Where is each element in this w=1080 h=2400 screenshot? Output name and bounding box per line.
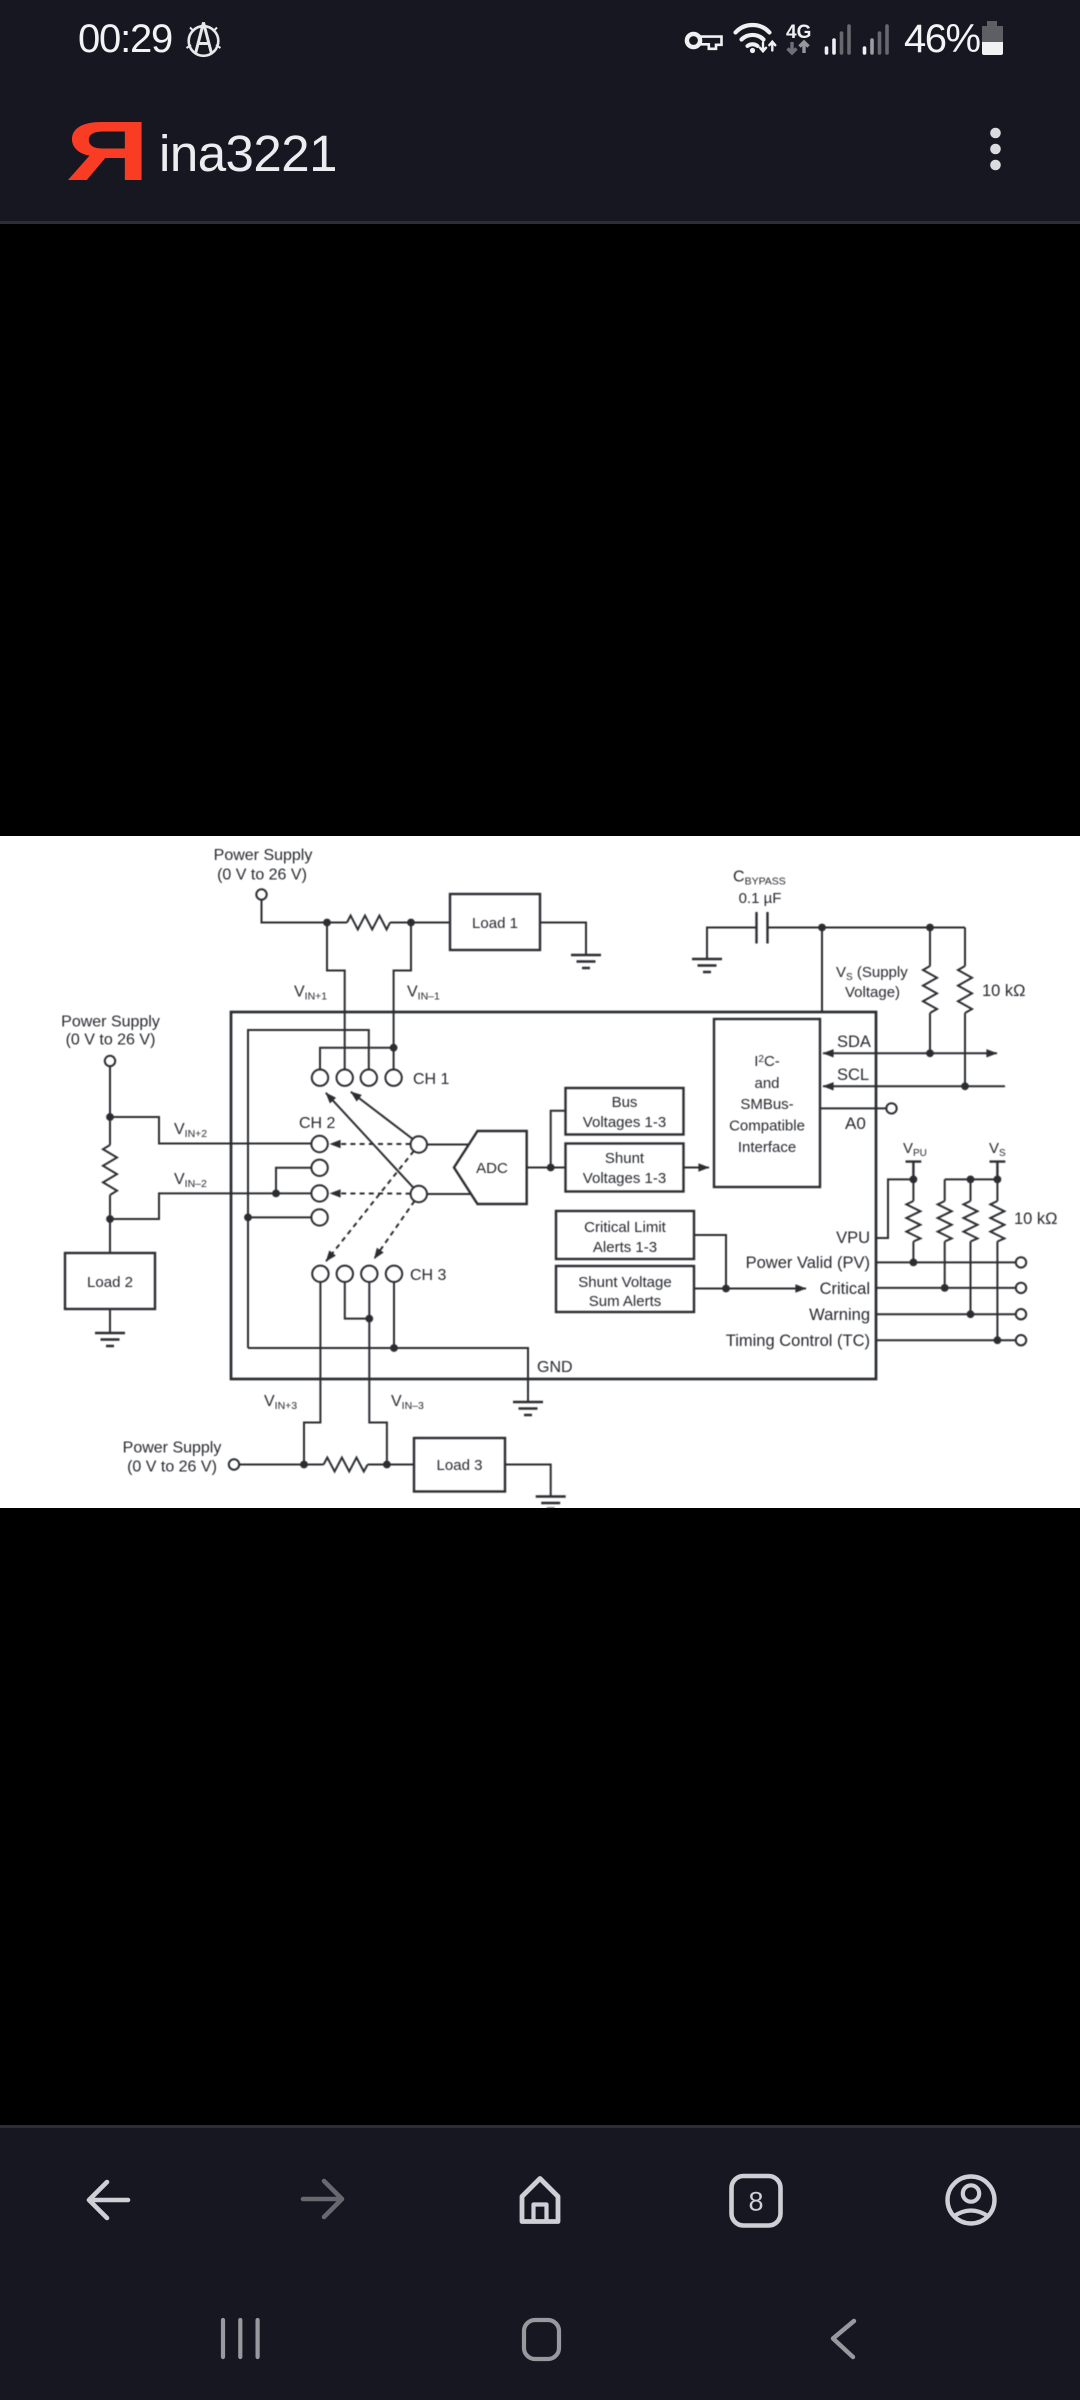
wire load2 to ground [109,1309,111,1333]
svg-text:CBYPASS: CBYPASS [733,869,786,888]
nav home [524,2320,559,2359]
wire inner loop bottom to GND [248,1348,528,1402]
node critical terminal [1016,1283,1026,1293]
svg-text:Timing Control (TC): Timing Control (TC) [726,1332,870,1350]
svg-text:VIN+3: VIN+3 [264,1393,297,1412]
svg-text:SCL: SCL [837,1066,869,1084]
wire mux dashed diagonal to CH3 pin3 [374,1201,414,1259]
wire mux solid diagonal to CH1 pin1 [326,1093,414,1188]
svg-text:SMBus-: SMBus- [740,1096,793,1113]
ground GND pin [513,1402,543,1415]
wire cap left to ground [707,928,757,960]
svg-text:ADC: ADC [476,1160,508,1177]
node junction VIN-1 [407,919,415,927]
node junction ch3 pins23 [365,1315,373,1323]
node junction SCL [961,1082,969,1090]
wire mux to ADC [427,1145,471,1195]
svg-text:VS: VS [989,1140,1006,1159]
node junction SDA pullup top [926,924,934,932]
svg-text:Shunt: Shunt [605,1150,645,1167]
svg-text:Voltages 1-3: Voltages 1-3 [583,1114,666,1131]
top status/app bar [0,0,1080,223]
svg-text:Voltage): Voltage) [845,984,900,1001]
resistor R7 TC pullup [996,1179,998,1340]
node supply2 terminal [105,1056,115,1066]
svg-text:CH 1: CH 1 [413,1071,450,1088]
svg-text:Voltages 1-3: Voltages 1-3 [583,1170,666,1187]
wire mux solid diagonal to CH1 pin2 [351,1092,413,1139]
node junction VIN+3 [300,1461,308,1469]
load 1 box [450,894,540,950]
wire CH2 pin4 link [248,1216,311,1218]
svg-text:Alerts 1-3: Alerts 1-3 [593,1239,657,1256]
wire VS pin drop [821,928,823,1014]
svg-text:VIN+2: VIN+2 [174,1121,207,1140]
svg-text:Load 3: Load 3 [437,1457,483,1474]
wire VS rail [945,1178,998,1180]
wire A0 pin [820,1107,886,1109]
node junction VIN-3 [383,1461,391,1469]
node critical junction [941,1284,949,1292]
tab counter [732,2176,781,2226]
wire load3 to ground [505,1465,551,1497]
node warning junction [967,1310,975,1318]
svg-text:(0 V to 26 V): (0 V to 26 V) [66,1032,156,1049]
node supply3 terminal [229,1459,239,1469]
svg-text:GND: GND [537,1359,573,1376]
wire supply3 line [239,1464,414,1466]
node junction VS rail end [994,1176,1002,1184]
back arrow [89,2182,128,2218]
svg-text:VIN–3: VIN–3 [391,1393,424,1412]
wire CH3 pin2 link [345,1282,370,1319]
wire mux dashed to CH2 pin1 [330,1143,411,1145]
wire mux dashed to CH2 pin3 [330,1192,411,1194]
wire CH2 pin2 link [276,1168,311,1194]
node junction VIN+2 [106,1113,114,1121]
svg-text:VIN–1: VIN–1 [407,984,440,1003]
capacitor C1 CBYPASS plates [757,912,768,944]
block bus voltages box [566,1088,684,1135]
node junction VIN-1 inner [390,1044,398,1052]
svg-text:(0 V to 26 V): (0 V to 26 V) [127,1459,217,1476]
node junction VS [818,924,826,932]
svg-text:10 kΩ: 10 kΩ [982,982,1026,1000]
resistor RS3 shunt channel3 [324,1458,368,1472]
node A0 terminal [886,1103,896,1113]
wire SCL bus [823,1085,1005,1087]
node PV junction [910,1259,918,1267]
wire mux dashed diagonal to CH3 pin1 [326,1151,414,1261]
node junction VIN+1 [323,919,331,927]
op-amp U2 I2C SMBus interface box [714,1019,820,1187]
node junction inner loop ch3 [390,1344,398,1352]
node junction ADC out [547,1164,555,1172]
forward arrow (dimmed) [303,2181,342,2217]
node junction SDA [926,1049,934,1057]
svg-text:VPU: VPU [903,1140,927,1159]
wire VIN+1 sense line [327,923,345,1070]
node CH2 pin circles [311,1136,327,1152]
white image area with circuit diagram [0,836,1080,1508]
svg-text:CH 2: CH 2 [299,1115,336,1132]
svg-text:10 kΩ: 10 kΩ [1014,1210,1058,1228]
svg-text:SDA: SDA [837,1033,871,1051]
node VS supply terminal [990,1162,1006,1180]
svg-text:Load 2: Load 2 [87,1274,133,1291]
overflow menu dots [990,128,1001,171]
resistor R5 critical pullup [944,1179,946,1288]
node junction inner loop ch2 [244,1214,252,1222]
node junction VS rail mid [967,1176,975,1184]
svg-text:I2C-: I2C- [754,1053,780,1070]
op-amp U3 ADC pentagon [454,1131,527,1204]
wire critical output [876,1287,1016,1289]
svg-text:VPU: VPU [836,1229,870,1247]
wire shunt voltages to interface arrow [684,1167,710,1169]
load 2 box [65,1253,155,1309]
svg-text:and: and [754,1075,779,1092]
svg-text:VIN–2: VIN–2 [174,1171,207,1190]
wire PV output [876,1261,1016,1263]
resistor R3 SCL pullup 10k [964,928,966,1087]
node warning terminal [1016,1309,1026,1319]
anarchy notification icon [187,23,221,56]
node TC junction [994,1336,1002,1344]
resistor R4 PV pullup [912,1179,914,1262]
wire CH3 pin4 link [393,1282,395,1348]
4G indicator [786,22,811,53]
bottom toolbar [0,2128,1080,2400]
profile icon [948,2177,995,2224]
block critical limit alerts box [556,1211,694,1259]
node CH3 pin circles [312,1266,328,1282]
svg-text:Shunt Voltage: Shunt Voltage [578,1274,671,1291]
wire inner loop top [248,1030,369,1348]
ground load3 [536,1497,566,1509]
resistor RS1 shunt channel1 [347,916,390,930]
wire CH3 pin1 to VIN+3 [304,1282,320,1465]
signal bars sim1 [827,26,850,53]
wire VIN-1 sense line [320,923,411,1070]
wire VPU pin [876,1179,913,1238]
ground bypass [692,959,722,972]
svg-text:VIN+1: VIN+1 [294,984,327,1003]
resistor R6 warning pullup [970,1179,972,1314]
svg-text:Sum Alerts: Sum Alerts [589,1293,662,1310]
svg-text:CH 3: CH 3 [410,1267,447,1284]
wire cap to VS rail [768,927,966,929]
svg-text:Warning: Warning [809,1306,870,1324]
svg-text:Bus: Bus [612,1094,638,1111]
wire supply1 to shunt R1 [262,900,451,923]
svg-text:8: 8 [748,2187,763,2217]
svg-text:A0: A0 [845,1114,866,1133]
wire SDA bus [823,1052,930,1054]
svg-text:Load 1: Load 1 [472,915,518,932]
wire ADC output [527,1111,566,1168]
signal bars sim2 [865,26,888,53]
node CH1 pin circles [312,1070,328,1086]
node TC terminal [1016,1335,1026,1345]
svg-text:Critical Limit: Critical Limit [584,1219,667,1236]
node supply1 terminal [256,889,266,899]
svg-text:4G: 4G [786,22,811,43]
svg-text:Power Supply: Power Supply [61,1014,160,1031]
node VPU rail junction [910,1176,918,1184]
resistor RS2 shunt channel2 [103,1145,117,1195]
wire VIN-2 sense [110,1193,311,1219]
svg-text:Power Supply: Power Supply [214,847,313,864]
battery icon [982,21,1003,55]
nav recents [223,2320,258,2357]
wire VIN+2 sense [110,1117,311,1144]
svg-text:Compatible: Compatible [729,1118,805,1135]
wire CH3 pin3 to VIN-3 [369,1282,387,1465]
node junction VIN-2 out [106,1215,114,1223]
load 3 box [414,1438,505,1492]
node VPU supply terminal [906,1162,922,1180]
svg-text:Power Supply: Power Supply [123,1440,222,1457]
resistor R2 SDA pullup 10k [929,928,931,1054]
wire warning output [876,1313,1016,1315]
svg-text:(0 V to 26 V): (0 V to 26 V) [217,867,307,884]
node mux selector circles [411,1136,427,1152]
ground load1 [571,955,601,968]
svg-text:Interface: Interface [738,1139,796,1156]
op-amp U1 INA3221 IC outline [231,1012,876,1379]
svg-text:Power Valid (PV): Power Valid (PV) [746,1254,870,1272]
ground load2 [95,1333,125,1346]
wire supply2 down [109,1066,111,1253]
node junction vin-2 [272,1190,280,1198]
svg-text:VS (Supply: VS (Supply [836,964,908,983]
node junction alerts [722,1285,730,1293]
vpn key icon [687,34,722,49]
svg-text:0.1 µF: 0.1 µF [739,890,782,907]
node PV terminal [1016,1257,1026,1267]
home icon [522,2179,558,2223]
wire alerts to critical pin [694,1235,806,1289]
wifi icon with traffic arrows [736,25,776,53]
block shunt voltage sum alerts box [556,1266,694,1312]
svg-text:Critical: Critical [820,1280,870,1298]
block shunt voltages box [566,1144,684,1192]
wire load1 to ground [540,923,586,956]
nav back [833,2321,854,2357]
wire TC output [876,1339,1016,1341]
